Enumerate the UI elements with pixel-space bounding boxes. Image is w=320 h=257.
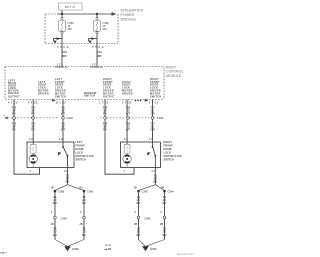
svg-text:OR: OR xyxy=(151,112,155,116)
svg-text:BK: BK xyxy=(163,233,167,237)
svg-text:SWITCH: SWITCH xyxy=(84,95,95,98)
splice dot C363 xyxy=(54,190,65,194)
svg-text:BK: BK xyxy=(137,233,141,237)
svg-text:2B: 2B xyxy=(134,223,137,226)
wire labels below splices xyxy=(53,195,166,205)
svg-text:A10: A10 xyxy=(97,50,102,54)
svg-text:electrical info: electrical info xyxy=(177,252,194,256)
inline connector C310 dashed line xyxy=(4,114,74,120)
svg-text:Z1: Z1 xyxy=(163,226,167,230)
svg-text:4 A: 4 A xyxy=(29,138,33,141)
svg-text:2: 2 xyxy=(135,211,137,214)
splice split right xyxy=(139,185,165,191)
svg-text:1: 1 xyxy=(30,170,32,173)
svg-text:C363: C363 xyxy=(58,190,65,194)
BCM internal label column 6 xyxy=(122,81,133,96)
right switch output wire xyxy=(154,156,156,185)
svg-text:RD: RD xyxy=(98,54,102,58)
svg-text:BK: BK xyxy=(82,201,86,205)
svg-text:SWITCH: SWITCH xyxy=(150,95,161,98)
svg-text:BK: BK xyxy=(82,233,86,237)
connector triangle on BCM border right xyxy=(145,99,148,102)
ground wire 1 xyxy=(54,192,56,239)
svg-text:BK: BK xyxy=(53,233,57,237)
svg-text:B4: B4 xyxy=(80,187,84,190)
pin labels below IPM left xyxy=(57,46,69,49)
label left front door lock motor and switch xyxy=(76,141,94,162)
svg-text:J048 1: J048 1 xyxy=(0,251,7,254)
left lock motor M xyxy=(29,153,37,167)
svg-text:C300: C300 xyxy=(61,216,68,220)
wire label A16 12 RD xyxy=(62,50,67,58)
svg-text:1: 1 xyxy=(124,170,126,173)
svg-text:C310: C310 xyxy=(67,116,74,120)
svg-text:■■ RD: ■■ RD xyxy=(105,248,112,251)
legend note xyxy=(105,244,112,251)
svg-text:OR: OR xyxy=(151,128,155,132)
inline connector C301 xyxy=(137,216,166,220)
left switch output wire xyxy=(67,156,69,185)
svg-text:1 T C2: 1 T C2 xyxy=(99,102,109,105)
integrated power module dashed box xyxy=(45,14,118,44)
pin label below left switch xyxy=(64,170,68,173)
svg-text:OUTPUT: OUTPUT xyxy=(8,95,20,98)
svg-text:OUTPUT: OUTPUT xyxy=(103,95,115,98)
svg-text:POWER: POWER xyxy=(121,13,135,17)
svg-text:G302: G302 xyxy=(72,247,79,251)
page id bottom left xyxy=(0,248,7,255)
svg-text:G301: G301 xyxy=(150,247,157,251)
svg-text:DRIVER: DRIVER xyxy=(122,92,133,95)
splice dot C344 xyxy=(163,190,174,194)
wire label A10 12 RD xyxy=(97,50,102,58)
BCM pin label rows below border xyxy=(8,102,159,105)
svg-text:2 Y: 2 Y xyxy=(64,170,68,173)
svg-text:40A: 40A xyxy=(103,28,108,31)
label right front door lock motor and switch xyxy=(164,141,182,162)
left door lock motor/switch box xyxy=(27,142,74,168)
BCM internal label power b+ right xyxy=(90,66,103,69)
svg-text:C365: C365 xyxy=(87,190,94,194)
svg-text:4: 4 xyxy=(4,114,6,117)
svg-text:4 T C2: 4 T C2 xyxy=(8,102,18,105)
splice split left xyxy=(55,185,84,191)
svg-text:BK: BK xyxy=(66,179,70,183)
svg-text:DRIVER: DRIVER xyxy=(38,92,49,95)
pin labels above BCM right xyxy=(92,63,98,66)
wire labels above ground xyxy=(53,226,166,237)
svg-text:Y T C A: Y T C A xyxy=(92,46,104,49)
right breaker element xyxy=(124,144,130,153)
svg-text:RD: RD xyxy=(63,54,67,58)
wire from BCM to right switch xyxy=(152,100,154,147)
pin labels above right lock box xyxy=(124,138,153,141)
svg-text:4 A: 4 A xyxy=(124,138,128,141)
right lock switch xyxy=(147,146,156,157)
svg-text:B Y C2: B Y C2 xyxy=(56,102,66,105)
watermark bottom right xyxy=(177,252,194,256)
wire from BCM to left motor xyxy=(32,100,34,145)
node junction left xyxy=(61,13,63,15)
svg-text:Z1: Z1 xyxy=(137,226,141,230)
fuse F23 output wire with connector arrow xyxy=(88,34,97,67)
BCM internal label column 4 xyxy=(84,92,97,98)
right door lock motor/switch box xyxy=(121,142,161,168)
svg-text:1 T C2: 1 T C2 xyxy=(149,102,159,105)
svg-text:WT: WT xyxy=(126,128,130,132)
BCM internal label column 3 xyxy=(55,78,66,99)
svg-text:WT: WT xyxy=(61,128,65,132)
svg-text:BATT A1: BATT A1 xyxy=(65,5,76,9)
svg-text:PK: PK xyxy=(103,112,107,116)
fuse F23 right xyxy=(94,14,110,34)
left breaker element xyxy=(30,144,36,153)
wire label left switch output xyxy=(66,173,70,183)
splice dot C365 xyxy=(83,190,94,194)
svg-text:1B: 1B xyxy=(134,187,137,190)
wire label right switch output xyxy=(153,173,157,183)
pin labels above splice dots xyxy=(51,187,165,190)
svg-text:PK: PK xyxy=(12,112,16,116)
body control module dashed box xyxy=(5,67,164,100)
svg-text:B4: B4 xyxy=(161,187,165,190)
wire from BCM pin to right lock feed xyxy=(105,100,134,175)
svg-text:Y T C A: Y T C A xyxy=(57,46,69,49)
left lock switch xyxy=(58,146,69,157)
ground wire 2 xyxy=(83,192,85,239)
BCM internal label column 5 xyxy=(103,78,115,99)
svg-text:40A: 40A xyxy=(68,28,73,31)
svg-text:POWER B+: POWER B+ xyxy=(55,66,68,69)
svg-text:2B: 2B xyxy=(160,223,163,226)
wire from BCM to left switch xyxy=(62,100,64,147)
svg-text:2: 2 xyxy=(161,211,163,214)
svg-text:MODULE: MODULE xyxy=(166,74,182,78)
svg-text:2: 2 xyxy=(80,211,82,214)
svg-text:BK: BK xyxy=(53,201,57,205)
svg-text:1B: 1B xyxy=(51,187,54,190)
wire labels row A xyxy=(12,106,156,116)
BCM internal label column 7 xyxy=(150,78,161,99)
svg-text:~~: ~~ xyxy=(2,248,5,250)
svg-text:2B: 2B xyxy=(51,223,54,226)
svg-text:1 A: 1 A xyxy=(149,138,153,141)
pin labels below IPM right xyxy=(92,46,104,49)
svg-text:SWITCH: SWITCH xyxy=(55,95,66,98)
inline connector C403 dashed line xyxy=(100,116,164,120)
splice dot C342 xyxy=(137,190,148,194)
svg-text:MODULE: MODULE xyxy=(121,18,137,22)
svg-text:BK: BK xyxy=(153,179,157,183)
pin label right motor bottom xyxy=(124,170,126,173)
pin labels above left lock box xyxy=(29,138,63,141)
wire from BCM pin to left lock feed xyxy=(14,100,40,175)
svg-text:C403: C403 xyxy=(157,116,164,120)
svg-text:Z1: Z1 xyxy=(53,226,57,230)
bus wire B+ with arrow xyxy=(57,12,117,16)
svg-text:C301: C301 xyxy=(145,216,152,220)
pin label below right switch xyxy=(152,170,156,173)
svg-text:WT: WT xyxy=(61,112,65,116)
BCM internal label column 2 xyxy=(38,81,49,96)
svg-text:SWITCH: SWITCH xyxy=(164,158,175,161)
svg-text:Z1: Z1 xyxy=(82,226,86,230)
svg-text:BK: BK xyxy=(163,201,167,205)
wire labels row B xyxy=(12,122,156,132)
svg-text:1 A: 1 A xyxy=(59,138,63,141)
ground G302 xyxy=(64,246,79,251)
svg-text:■ LG: ■ LG xyxy=(106,244,111,247)
pin label left motor bottom xyxy=(30,170,32,173)
ground wire 4 xyxy=(164,192,166,239)
svg-text:A16: A16 xyxy=(62,50,67,54)
svg-text:SWITCH: SWITCH xyxy=(76,158,87,161)
svg-text:POWER B+: POWER B+ xyxy=(90,66,103,69)
svg-text:C344: C344 xyxy=(168,190,175,194)
svg-text:PK: PK xyxy=(31,128,35,132)
BCM internal label column 1 xyxy=(8,80,20,99)
node junction right xyxy=(96,13,98,15)
ellipsis dots on BCM border xyxy=(135,100,141,101)
svg-text:PK: PK xyxy=(103,128,107,132)
svg-text:2B: 2B xyxy=(80,223,83,226)
svg-text:BK: BK xyxy=(137,201,141,205)
pin labels below C300/C301 xyxy=(51,223,164,226)
connector triangle on BCM border left xyxy=(52,99,55,102)
svg-text:INTEGRATED: INTEGRATED xyxy=(121,9,144,13)
ground converge left xyxy=(55,240,84,247)
ground wire 3 xyxy=(138,192,140,239)
wire from BATT A1 to bus xyxy=(61,11,63,15)
battery feed box BATT A1 xyxy=(59,3,83,10)
svg-text:PK: PK xyxy=(31,112,35,116)
svg-text:2 Y: 2 Y xyxy=(152,170,156,173)
BCM internal label power b+ left xyxy=(55,66,68,69)
wire from BCM to right motor xyxy=(126,100,128,145)
svg-text:C342: C342 xyxy=(142,190,149,194)
ground G301 xyxy=(142,246,157,251)
pin labels above C300 xyxy=(51,211,163,214)
pin labels above BCM left xyxy=(57,63,63,66)
label BODY CONTROL MODULE xyxy=(166,65,184,78)
fuse F18 output wire with connector arrow xyxy=(53,34,62,67)
fuse F18 left xyxy=(59,14,75,34)
ground converge right xyxy=(139,240,165,247)
svg-text:WT: WT xyxy=(126,112,130,116)
svg-text:2: 2 xyxy=(51,211,53,214)
right lock motor M xyxy=(123,153,131,167)
inline connector C300 xyxy=(54,216,86,220)
svg-text:PK: PK xyxy=(12,128,16,132)
label INTEGRATED POWER MODULE xyxy=(121,9,144,22)
